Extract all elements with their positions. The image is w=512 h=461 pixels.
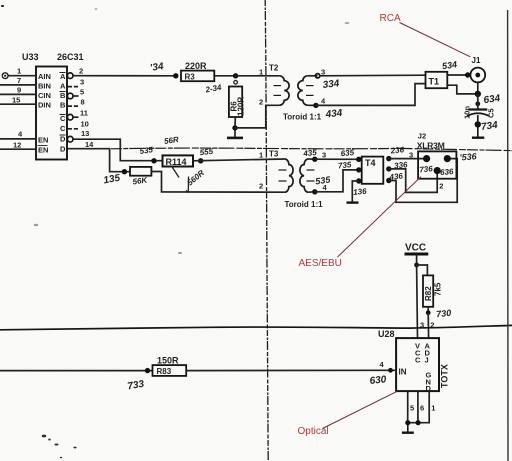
connector J1 RCA: [470, 56, 485, 82]
svg-text:AIN: AIN: [38, 72, 51, 81]
svg-text:A: A: [60, 72, 66, 81]
svg-text:26C31: 26C31: [57, 52, 84, 62]
svg-text:3: 3: [322, 151, 326, 160]
wire T1 to J1: [447, 74, 470, 76]
svg-text:150R: 150R: [157, 356, 179, 366]
svg-text:8: 8: [81, 97, 85, 106]
resistor 56K: [130, 167, 151, 187]
pin 14 D output: [85, 140, 94, 149]
pin 11 bubble stub: [67, 109, 88, 120]
scan fold line horizontal upper: [111, 148, 512, 151]
wire EN pin4: [0, 130, 36, 139]
svg-text:EN: EN: [38, 136, 48, 145]
svg-text:C5: C5: [487, 108, 496, 118]
svg-text:D: D: [60, 135, 66, 144]
wire R83 to U28 IN: [186, 369, 396, 371]
wire /EN pin12: [0, 141, 36, 150]
svg-text:12: 12: [13, 141, 21, 150]
wire J1 down: [477, 82, 479, 94]
junction under J1: [475, 91, 481, 97]
svg-text:10n: 10n: [462, 106, 471, 119]
wire T3 pin4 to T4 middle pin: [315, 170, 358, 192]
svg-text:120R: 120R: [237, 97, 246, 116]
svg-text:1: 1: [259, 68, 263, 77]
wire T2 pin4 to T1 lower pin: [316, 84, 426, 106]
T4 left pin dots: [356, 157, 361, 162]
wire pin14 to 56K row: [68, 149, 131, 172]
pin 5 bubble stub: [67, 87, 84, 98]
wire input to IN pin4 with R83: [0, 368, 153, 373]
svg-text:635: 635: [340, 148, 355, 158]
wire R82 to U28 pin2: [427, 313, 429, 338]
scan speckles: [1, 5, 77, 458]
junction under VCC: [414, 263, 419, 268]
svg-text:136: 136: [353, 187, 368, 197]
svg-text:DIN: DIN: [38, 101, 51, 110]
T3 pin4 junction: [308, 189, 317, 194]
transformer T1 box: [426, 72, 448, 88]
resistor R82 7k5: [423, 275, 443, 312]
junction under R82: [426, 310, 431, 315]
junction right of R114: [198, 158, 203, 163]
scan fold line vertical: [265, 0, 268, 461]
svg-text:636: 636: [440, 167, 454, 177]
junction dots on pin5 pin6: [405, 420, 410, 425]
wire R114 to T3 pin1: [193, 159, 285, 161]
svg-text:R82: R82: [424, 286, 433, 301]
wire 56K to T3 pin2: [151, 172, 284, 193]
connector J2 XLR3M: [409, 132, 456, 191]
svg-text:VCC: VCC: [405, 243, 426, 254]
wire T4 middle right to XLR pin2: [389, 169, 437, 193]
svg-text:BIN: BIN: [38, 82, 51, 91]
svg-text:Toroid 1:1: Toroid 1:1: [283, 113, 322, 122]
svg-text:15: 15: [12, 96, 20, 105]
svg-text:T3: T3: [269, 150, 279, 159]
wire DIN pin15: [0, 96, 36, 105]
wire T2 pin2 return to ground node: [235, 105, 279, 128]
svg-text:T4: T4: [365, 158, 376, 168]
ground under U28: [402, 423, 414, 433]
svg-text:435: 435: [302, 148, 318, 159]
red arrow to J1: [400, 23, 471, 57]
wire T4 top right to XLR pin3: [389, 158, 427, 160]
svg-text:2: 2: [259, 182, 263, 191]
node input A (connector circle): [2, 73, 8, 79]
VCC supply: [405, 243, 429, 266]
scan fold line horizontal lower: [0, 325, 512, 329]
svg-text:11: 11: [80, 109, 88, 118]
U28 bottom pins 5 6 1: [408, 391, 430, 423]
svg-text:CIN: CIN: [38, 91, 51, 100]
svg-text:730: 730: [436, 308, 452, 320]
transformer T2: [259, 64, 326, 122]
svg-text:434: 434: [324, 108, 343, 121]
transformer T4 box: [362, 157, 384, 184]
pin 13 /D output bubble: [67, 129, 89, 142]
svg-text:C: C: [60, 114, 66, 123]
IC U33 26C31 quad line driver: [22, 52, 84, 160]
resistor R83 150R: [153, 356, 187, 377]
T4 right pin dots: [386, 156, 391, 161]
junction before R3: [173, 73, 178, 78]
T2 pin4 node: [308, 103, 319, 108]
resistor R114: [163, 155, 194, 166]
svg-text:2: 2: [79, 67, 83, 76]
svg-text:735: 735: [338, 160, 353, 170]
svg-text:B: B: [60, 91, 66, 100]
red arrow to XLR: [338, 177, 422, 257]
svg-text:3: 3: [409, 151, 413, 160]
junction under R6: [232, 125, 237, 130]
wire R3 to T2 pin1: [236, 75, 280, 77]
ground under C5: [472, 124, 484, 137]
wire CIN pin9: [0, 86, 36, 95]
svg-text:7: 7: [17, 76, 21, 85]
svg-text:R3: R3: [185, 73, 196, 82]
junction at IN pin: [388, 368, 393, 373]
junction under C5: [475, 121, 481, 127]
svg-text:3: 3: [80, 78, 84, 87]
svg-text:U28: U28: [378, 329, 395, 339]
resistor R3 220R: [181, 61, 236, 82]
svg-text:535: 535: [139, 145, 154, 156]
svg-text:1: 1: [431, 404, 435, 413]
svg-text:A: A: [60, 82, 66, 91]
svg-text:J2: J2: [418, 132, 426, 141]
wire T3 pin3 to T4: [315, 158, 358, 160]
svg-text:5: 5: [410, 404, 414, 413]
T4 bottom-left pin to ground: [347, 181, 359, 203]
svg-text:634: 634: [483, 93, 501, 106]
page border right: [507, 10, 509, 461]
svg-text:534: 534: [441, 59, 457, 71]
svg-text:236: 236: [389, 145, 405, 156]
svg-text:6: 6: [420, 404, 424, 413]
wire pin13 to R114 row: [73, 139, 163, 161]
junction left of 56K resistor: [122, 169, 127, 174]
wire VCC to U28 pin3: [416, 265, 419, 338]
svg-text:10: 10: [81, 120, 89, 129]
svg-text:13: 13: [81, 129, 89, 138]
wire AIN pin1: [8, 67, 36, 76]
junction after R3: [233, 73, 238, 78]
svg-text:5: 5: [80, 87, 84, 96]
capacitor C5 10n: [462, 94, 495, 125]
resistor R6 120R vertical: [229, 81, 246, 128]
svg-text:2: 2: [439, 182, 443, 191]
svg-text:R114: R114: [166, 157, 187, 167]
wire VCC branch to R82: [417, 265, 428, 275]
pin 3 stub: [68, 78, 85, 87]
svg-text:T2: T2: [269, 64, 279, 73]
svg-text:'536: '536: [459, 151, 478, 162]
svg-text:T1: T1: [429, 77, 440, 87]
svg-text:AES/EBU: AES/EBU: [299, 258, 342, 269]
red arrow to U28: [323, 391, 398, 428]
svg-text:R83: R83: [157, 367, 172, 376]
svg-text:7k5: 7k5: [434, 282, 443, 296]
svg-text:1: 1: [259, 151, 263, 160]
IC U28 TOTX optical transmitter: [378, 329, 450, 393]
pin 10 stub: [68, 120, 89, 129]
svg-text:C: C: [60, 124, 66, 133]
svg-text:J: J: [425, 356, 429, 365]
hw note 560R diagonal: [172, 166, 207, 192]
wire T2 pin3 to T1: [320, 74, 426, 77]
svg-text:9: 9: [17, 86, 21, 95]
svg-text:EN: EN: [38, 146, 48, 155]
svg-text:1: 1: [17, 67, 21, 76]
svg-text:2: 2: [259, 98, 263, 107]
svg-text:TOTX: TOTX: [440, 364, 450, 388]
pin 8 stub: [68, 97, 85, 106]
T3 pin3 junction: [308, 157, 317, 162]
svg-text:C: C: [415, 356, 421, 365]
svg-text:D: D: [60, 145, 66, 154]
svg-text:736: 736: [419, 164, 434, 174]
junction left of R114: [151, 158, 156, 163]
pin 2 /A output bubble and wire: [67, 67, 175, 79]
svg-text:630: 630: [369, 374, 387, 387]
svg-text:220R: 220R: [185, 61, 207, 71]
ground under R6: [227, 128, 243, 138]
svg-text:J1: J1: [472, 56, 481, 65]
T2 pin3 node: [308, 74, 320, 78]
svg-text:U33: U33: [22, 52, 39, 62]
svg-text:334: 334: [322, 78, 340, 91]
svg-text:Toroid 1:1: Toroid 1:1: [285, 200, 324, 209]
wire T1 bottom to C5 node: [447, 85, 478, 94]
svg-text:RCA: RCA: [380, 13, 401, 24]
svg-text:'34: '34: [149, 61, 164, 74]
svg-text:B: B: [60, 101, 66, 110]
svg-text:14: 14: [85, 140, 94, 149]
svg-text:IN: IN: [399, 368, 407, 377]
transformer T3: [259, 150, 328, 210]
wire BIN pin7: [0, 76, 36, 85]
junction before J1: [465, 72, 470, 77]
wire T4 bottom right to XLR pin1: [389, 159, 457, 203]
